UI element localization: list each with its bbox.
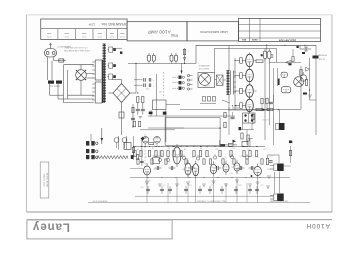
svg-text:CAD No 1234: CAD No 1234 — [42, 174, 45, 188]
svg-text:Laney: Laney — [32, 221, 70, 233]
svg-text:R17: R17 — [263, 149, 266, 151]
svg-text:xx xx: xx xx — [82, 35, 86, 37]
svg-text:A100H: A100H — [306, 222, 330, 229]
svg-text:C5: C5 — [176, 156, 178, 158]
svg-text:DRAWING No.: DRAWING No. — [100, 22, 127, 26]
svg-text:R29: R29 — [238, 185, 241, 187]
svg-text:100u: 100u — [146, 88, 150, 90]
svg-text:C9: C9 — [208, 156, 210, 158]
svg-text:A100 AMP: A100 AMP — [147, 29, 170, 34]
svg-text:C21: C21 — [209, 167, 212, 169]
svg-text:OUTPUT: OUTPUT — [261, 118, 269, 120]
svg-text:C7: C7 — [192, 157, 194, 159]
svg-text:C19: C19 — [181, 169, 184, 171]
svg-text:IMPEDANCE: IMPEDANCE — [198, 64, 210, 67]
svg-text:R21: R21 — [195, 169, 198, 171]
svg-text:T3.15A: T3.15A — [318, 57, 325, 60]
svg-text:ALL GROUNDS TO CHASSIS: ALL GROUNDS TO CHASSIS — [196, 199, 225, 202]
svg-text:HEATERS 6.3V: HEATERS 6.3V — [92, 199, 107, 202]
svg-text:R1: R1 — [137, 149, 139, 151]
svg-text:xx xx: xx xx — [47, 35, 51, 37]
svg-text:240V: 240V — [77, 63, 82, 65]
svg-text:R31: R31 — [267, 169, 270, 171]
svg-text:V1 V2: V1 V2 — [144, 179, 150, 181]
svg-text:230V 50Hz 0.5A FUSE T2A: 230V 50Hz 0.5A FUSE T2A — [64, 49, 90, 52]
svg-text:C23: C23 — [251, 167, 254, 169]
svg-text:SELECTOR: SELECTOR — [198, 67, 209, 69]
svg-text:C1: C1 — [145, 157, 147, 159]
svg-text:HT FUSE: HT FUSE — [318, 54, 327, 56]
svg-text:MAINS SW: MAINS SW — [50, 84, 60, 87]
svg-text:R19: R19 — [153, 169, 156, 171]
svg-text:R27: R27 — [188, 185, 191, 187]
svg-text:C25: C25 — [162, 185, 165, 187]
svg-text:xx: xx — [223, 125, 225, 127]
svg-text:C29: C29 — [260, 185, 263, 187]
svg-text:LANEY AMPLIFICATION: LANEY AMPLIFICATION — [200, 30, 228, 33]
svg-text:R3: R3 — [152, 148, 154, 150]
svg-text:C11: C11 — [224, 157, 227, 159]
svg-text:R7: R7 — [184, 149, 186, 151]
svg-text:R15: R15 — [247, 149, 250, 151]
svg-text:R11: R11 — [216, 149, 219, 151]
svg-text:R5: R5 — [168, 148, 170, 150]
svg-text:C3: C3 — [160, 155, 162, 157]
svg-text:4-8-16: 4-8-16 — [204, 85, 209, 87]
svg-text:REV: REV — [241, 38, 246, 40]
svg-text:C15: C15 — [255, 157, 258, 159]
svg-text:xx xx: xx xx — [120, 35, 124, 37]
svg-text:DESCRIPTION: DESCRIPTION — [279, 38, 296, 41]
svg-text:C17: C17 — [269, 156, 272, 158]
svg-text:1234: 1234 — [88, 23, 95, 27]
svg-text:TITLE: TITLE — [171, 33, 178, 37]
svg-text:C31: C31 — [229, 173, 232, 175]
svg-text:xx xx: xx xx — [110, 35, 114, 37]
svg-text:DATE: DATE — [251, 38, 257, 41]
svg-text:R25: R25 — [140, 187, 143, 189]
svg-text:MODEL A100H: MODEL A100H — [46, 173, 49, 188]
svg-text:xx xx: xx xx — [64, 35, 68, 37]
svg-text:R23: R23 — [231, 167, 234, 169]
svg-text:C13: C13 — [239, 156, 242, 158]
svg-text:R13: R13 — [231, 148, 234, 150]
svg-text:xx xx: xx xx — [97, 35, 101, 37]
svg-text:CT-1 0-110-120 220-240V: CT-1 0-110-120 220-240V — [64, 46, 88, 48]
svg-text:C27: C27 — [210, 185, 213, 187]
svg-text:R9: R9 — [200, 148, 202, 150]
